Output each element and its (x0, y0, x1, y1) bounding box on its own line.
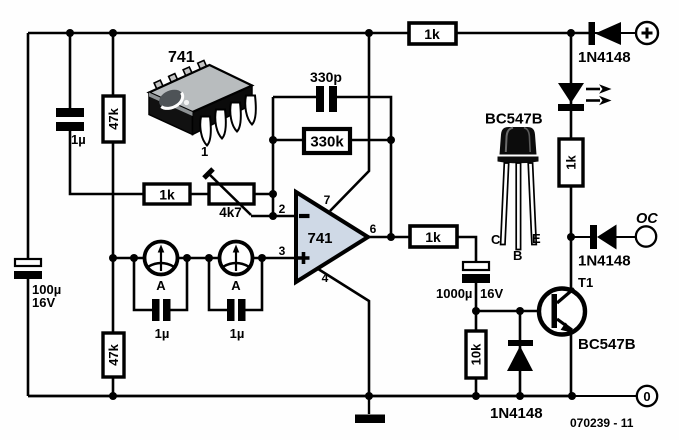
wire C4 top (273, 97, 391, 140)
node meter rail left (109, 254, 117, 262)
svg-text:741: 741 (307, 230, 332, 247)
node meter M2 left (205, 254, 213, 262)
diode D1 1N4148 (578, 22, 631, 66)
node bottom rail ground (365, 392, 373, 400)
svg-text:070239 - 11: 070239 - 11 (570, 416, 634, 430)
svg-text:1µ: 1µ (230, 326, 245, 341)
svg-text:1k: 1k (159, 187, 175, 203)
svg-text:E: E (532, 231, 541, 246)
svg-text:BC547B: BC547B (578, 336, 636, 353)
svg-text:1µ: 1µ (71, 132, 86, 147)
node bottom rail R8 (472, 392, 480, 400)
svg-text:BC547B: BC547B (485, 111, 543, 128)
capacitor C2 1u (152, 299, 171, 341)
node bottom rail emitter (568, 392, 576, 400)
terminal plus (636, 22, 658, 44)
wire C1 branch (70, 33, 273, 194)
wire C3 bypass loop (209, 258, 262, 310)
wire R8 branch (475, 311, 478, 396)
svg-text:1: 1 (201, 144, 208, 159)
wire diode D1 to plus terminal (591, 32, 637, 34)
svg-text:741: 741 (168, 49, 195, 66)
wire pin4 to ground (315, 267, 369, 396)
ground (355, 396, 385, 423)
node top rail LED (567, 29, 575, 37)
node top rail pin7 (365, 29, 373, 37)
svg-text:4: 4 (322, 271, 329, 285)
label 741 package (168, 49, 195, 66)
node C5 bottom (472, 307, 480, 315)
svg-text:7: 7 (324, 193, 331, 207)
node meter M1 left (130, 254, 138, 262)
resistor R5 47k (103, 333, 124, 377)
op-amp U1 741 (279, 192, 377, 285)
label BC547B package (485, 111, 543, 128)
label circuit number (570, 416, 634, 430)
svg-text:1k: 1k (424, 26, 440, 42)
svg-text:1N4148: 1N4148 (490, 405, 543, 422)
potentiometer P1 4k7 (204, 169, 273, 220)
wire R4 row (273, 139, 391, 142)
svg-text:OC: OC (636, 211, 658, 227)
resistor R7 1k output (410, 226, 457, 247)
svg-text:330k: 330k (310, 134, 344, 151)
capacitor C5 1000u electrolytic (436, 262, 503, 301)
resistor R6 1k LED (559, 139, 583, 186)
node meter M1 right (183, 254, 191, 262)
svg-text:1N4148: 1N4148 (578, 253, 631, 270)
svg-text:1µ: 1µ (155, 326, 170, 341)
node top rail R1 (109, 29, 117, 37)
wire pin7 to rail (330, 33, 369, 211)
transistor T1 BC547B (539, 275, 636, 353)
LED D2 (558, 83, 612, 111)
svg-text:1k: 1k (425, 229, 441, 245)
capacitor C6 100u electrolytic (14, 259, 61, 310)
svg-text:330p: 330p (310, 69, 342, 85)
wire emitter (570, 331, 573, 396)
wire node inverting input vertical (273, 97, 296, 216)
svg-text:3: 3 (279, 244, 286, 258)
svg-text:16V: 16V (32, 295, 55, 310)
node pin2 (269, 212, 277, 220)
svg-text:T1: T1 (578, 275, 593, 290)
svg-text:16V: 16V (480, 286, 503, 301)
resistor R1 47k (103, 96, 124, 142)
svg-text:A: A (156, 278, 166, 293)
svg-text:47k: 47k (106, 343, 121, 365)
terminal 0 (637, 386, 657, 406)
meter M1 (145, 242, 178, 294)
wire left rail upper (27, 33, 30, 259)
node pot output (269, 190, 277, 198)
IC 741 DIP package art (149, 60, 256, 159)
resistor R4 330k (304, 129, 350, 153)
node bottom rail D3 (516, 392, 524, 400)
wire R5 branch (112, 258, 115, 396)
wire R1 branch (112, 33, 115, 258)
resistor R2 1k (144, 184, 190, 204)
svg-text:4k7: 4k7 (219, 205, 242, 220)
svg-text:2: 2 (279, 202, 286, 216)
svg-text:A: A (231, 278, 241, 293)
transistor BC547B TO-92 package art (491, 127, 541, 263)
capacitor C4 330p (310, 69, 342, 112)
node meter M2 right (258, 254, 266, 262)
capacitor C3 1u (227, 299, 246, 341)
resistor R8 10k (466, 331, 486, 378)
wire pin6 output (368, 236, 410, 239)
node pin6 (387, 233, 395, 241)
wire C5 to base node (476, 283, 538, 311)
resistor R3 1k top (409, 23, 456, 44)
wire LED branch vertical (570, 33, 573, 237)
wire C2 bypass loop (134, 258, 187, 310)
svg-text:C: C (491, 232, 501, 247)
diode D3 1N4148 (490, 340, 543, 422)
node bottom rail R5 (109, 392, 117, 400)
node base D3 (516, 307, 524, 315)
node inverting row R4 left (269, 136, 277, 144)
wire R7 to C5 (457, 237, 476, 262)
wire bottom rail (28, 395, 637, 398)
wire meter rail (113, 257, 296, 260)
terminal OC (636, 211, 658, 247)
meter M2 (220, 242, 253, 294)
node OC junction (567, 233, 575, 241)
svg-text:0: 0 (643, 389, 650, 404)
svg-text:1000µ: 1000µ (436, 286, 472, 301)
svg-text:B: B (513, 248, 522, 263)
node feedback R4 right (387, 136, 395, 144)
svg-text:10k: 10k (469, 343, 484, 365)
wire top rail (28, 32, 591, 35)
wire feedback vertical (390, 140, 393, 237)
wire left rail lower (27, 279, 30, 396)
wire collector (570, 237, 573, 291)
diode D4 1N4148 OC (578, 225, 631, 270)
svg-text:1N4148: 1N4148 (578, 49, 631, 66)
svg-text:47k: 47k (106, 107, 121, 129)
svg-text:6: 6 (370, 222, 377, 236)
wire OC branch (571, 236, 637, 238)
capacitor C1 1u (56, 108, 86, 147)
svg-text:1k: 1k (564, 155, 579, 170)
node top rail C1 (66, 29, 74, 37)
wire D3 branch (519, 311, 522, 396)
